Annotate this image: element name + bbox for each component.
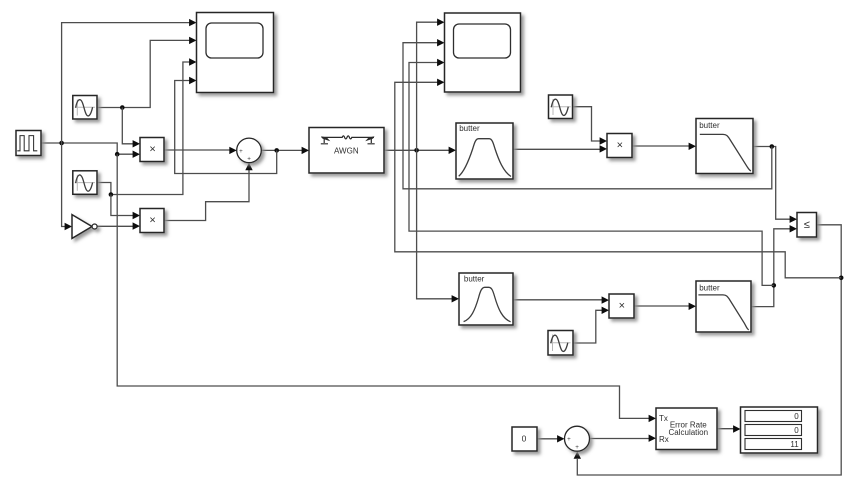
svg-text:×: × (149, 144, 155, 156)
error rate calculation block (656, 408, 717, 450)
svg-text:×: × (617, 139, 623, 151)
wire: NOT gate output to product P2 second input (97, 222, 140, 229)
wire: pulse branch down to NOT gate input (62, 143, 72, 230)
product P4 (609, 294, 634, 318)
relational operator (less-than-or-equal) (797, 213, 817, 238)
wire: sum S1 output to AWGN input (261, 147, 309, 154)
junction: relational output split (839, 276, 844, 281)
junction: butter lowpass 2 output split (772, 283, 777, 288)
AWGN channel block (309, 128, 384, 174)
wire: AWGN branch up to scope2 input 1 (417, 19, 445, 151)
svg-text:butter: butter (464, 275, 485, 284)
display block (741, 407, 818, 453)
wire: sine wave 2 output to scope1 input 3 (97, 58, 197, 194)
svg-text:+: + (239, 148, 243, 155)
svg-text:0: 0 (794, 426, 799, 435)
product P3 (607, 134, 632, 158)
sum S1 (237, 138, 262, 163)
wire: product P2 output to sum S1 bottom input (164, 163, 253, 221)
svg-text:Calculation: Calculation (669, 428, 709, 437)
wire: butter lowpass 1 branch to scope2 input 2 (403, 39, 772, 189)
wire: butter lowpass 2 branch to scope2 input 3 (409, 59, 774, 286)
wire: butter bandpass 1 output to product P3 second input (513, 145, 607, 152)
svg-text:+: + (567, 436, 571, 443)
junction: sine2 output split (109, 192, 114, 197)
sine wave 1 (73, 96, 97, 120)
svg-text:butter: butter (699, 121, 720, 130)
scope 2 (445, 13, 521, 92)
junction: pulse to product P1 / feedback split (115, 152, 120, 157)
svg-text:+: + (247, 156, 251, 163)
svg-text:0: 0 (794, 412, 799, 421)
wire: sine wave 3 output to product P3 first input (573, 107, 608, 145)
svg-text:×: × (149, 215, 155, 227)
wire: sine2 branch to product P2 first input (111, 195, 140, 220)
wire: pulse branch up to scope1 input 1 (62, 19, 197, 143)
wire: butter lowpass 1 output to relational operator input 1 (753, 147, 797, 223)
product P1 (140, 138, 164, 162)
wire: sine wave 4 output to product P4 second input (573, 307, 609, 343)
svg-text:+: + (575, 444, 579, 451)
wire: constant 0 to sum S2 (537, 435, 565, 442)
wire: error rate output to display (717, 425, 741, 432)
sum S2 (565, 426, 590, 451)
wire: pulse long feedback to error rate Tx (117, 154, 656, 422)
constant 0 (512, 427, 537, 451)
wire: product P4 output to butter lowpass 2 (634, 303, 696, 310)
wire: relational output branch to scope2 input 4 (395, 79, 841, 278)
svg-text:butter: butter (699, 284, 720, 293)
scope 1 (197, 13, 274, 93)
wire: sum1 branch to scope1 input 4 (175, 77, 277, 174)
pulse generator (16, 131, 41, 156)
wire: butter lowpass 2 output to relational operator input 2 (751, 225, 797, 307)
NOT gate (72, 215, 97, 239)
junction: sine1 output split (120, 105, 125, 110)
wire: sine1 branch to product P1 first input (122, 108, 140, 148)
junction: butter lowpass 1 output split (770, 144, 775, 149)
wire: sine wave 1 output to scope1 input 2 (97, 37, 197, 108)
sine wave 3 (549, 95, 573, 119)
svg-text:Rx: Rx (659, 435, 669, 444)
sine wave 2 (73, 171, 97, 195)
butter lowpass filter 1 (696, 119, 753, 174)
wire: AWGN output to butter bandpass 1 (384, 147, 456, 154)
butter lowpass filter 2 (696, 281, 751, 332)
wire: butter bandpass 2 output to product P4 first input (513, 296, 609, 303)
svg-text:×: × (619, 300, 625, 312)
svg-text:Tx: Tx (659, 414, 668, 423)
svg-text:AWGN: AWGN (334, 146, 359, 155)
svg-text:0: 0 (522, 434, 527, 444)
junction: sum1 output split (274, 148, 279, 153)
wire: relational operator output to sum S2 bottom input (574, 225, 842, 475)
wire: sum S2 output to error rate Rx (590, 435, 657, 442)
wire: pulse generator output to product P1 second input (41, 143, 140, 158)
wire: product P3 output to butter lowpass 1 (632, 143, 696, 150)
svg-text:butter: butter (459, 124, 480, 133)
product P2 (140, 209, 164, 233)
junction: pulse output split (59, 141, 64, 146)
butter bandpass filter 2 (459, 273, 513, 325)
wire: AWGN branch down to butter bandpass 2 (417, 150, 459, 302)
butter bandpass filter 1 (456, 123, 513, 179)
svg-text:11: 11 (790, 440, 799, 449)
wire: product P1 output to sum S1 (164, 147, 237, 154)
sine wave 4 (548, 331, 573, 356)
svg-text:≤: ≤ (804, 219, 810, 231)
junction: AWGN output split (414, 148, 419, 153)
